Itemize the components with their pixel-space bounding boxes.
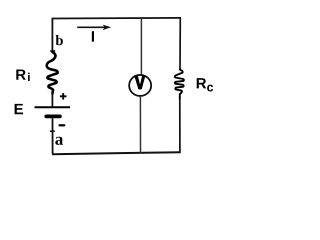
node a tick (50, 130, 55, 132)
wire right branch upper (179, 18, 181, 70)
current arrow I (77, 25, 111, 31)
wire right branch lower (179, 99, 181, 153)
voltmeter label V (134, 75, 145, 89)
node b tick (50, 50, 55, 52)
label Ri R (16, 69, 26, 79)
battery E minus sign (59, 124, 66, 126)
label Rc subscript c (207, 85, 213, 92)
label Rc R (197, 78, 207, 88)
voltmeter branch wire lower (139, 97, 141, 153)
label node a (55, 137, 63, 145)
resistor Ri (47, 52, 58, 93)
battery E long plate (35, 106, 71, 108)
wire bottom (52, 152, 181, 154)
wire top (52, 17, 181, 20)
wire battery to node a (52, 118, 54, 154)
voltmeter branch wire upper (140, 19, 142, 75)
wire Ri to battery (51, 93, 53, 107)
label node b (56, 35, 63, 45)
resistor Rc (175, 70, 184, 99)
voltmeter circle (129, 75, 151, 96)
battery E plus sign (60, 93, 67, 100)
label current I (92, 31, 94, 42)
label E (15, 104, 23, 114)
label Ri subscript i (28, 73, 30, 81)
battery E short plate (46, 115, 60, 119)
wire left branch upper (51, 18, 53, 53)
